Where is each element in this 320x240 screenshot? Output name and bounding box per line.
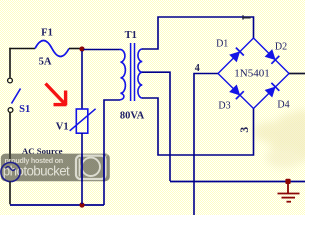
junction dot B <box>79 202 84 207</box>
bridge edge L-B <box>218 74 254 109</box>
fuse F1 <box>35 41 69 57</box>
wire primary return over watermark <box>103 154 105 182</box>
transformer T1 primary winding <box>120 49 126 99</box>
wire fuse to junction <box>69 48 81 50</box>
wire switch to AC source <box>9 113 11 164</box>
junction dot ground <box>285 179 290 184</box>
wire bottom-left rail <box>10 204 104 206</box>
svg-text:D4: D4 <box>277 99 289 110</box>
wire bottom rail right <box>170 181 305 183</box>
bridge edge B-R <box>254 74 290 109</box>
wire secondary top to bridge node 1 <box>142 17 254 49</box>
wire AC source to bottom rail <box>9 182 11 205</box>
red annotation arrow <box>46 84 67 106</box>
bridge edge T-R <box>254 38 290 74</box>
photobucket watermark band <box>1 153 110 181</box>
svg-text:D1: D1 <box>216 39 228 50</box>
AC source <box>1 162 20 181</box>
wire secondary bottom to bridge node 3 <box>142 98 254 155</box>
svg-text:F1: F1 <box>41 28 53 39</box>
switch S1 <box>8 78 21 112</box>
svg-text:D2: D2 <box>275 42 287 53</box>
wire top-left horizontal <box>9 48 35 50</box>
svg-text:4: 4 <box>195 63 200 74</box>
bridge edge L-T <box>218 38 254 74</box>
svg-text:80VA: 80VA <box>120 111 145 122</box>
varistor branch wire upper <box>81 51 83 109</box>
wire node 4 <box>194 74 218 216</box>
svg-text:3: 3 <box>239 127 251 133</box>
wire varistor branch over watermark <box>81 154 83 182</box>
svg-text:5A: 5A <box>39 57 52 68</box>
varistor branch wire lower <box>81 133 83 204</box>
svg-text:T1: T1 <box>125 30 137 41</box>
wire primary bottom return <box>104 100 120 205</box>
wire secondary tap to bottom rail <box>142 72 170 181</box>
wire bridge right output <box>289 73 305 75</box>
diode D2 <box>265 49 279 63</box>
wire left rail upper <box>9 48 11 78</box>
varistor V1 <box>70 109 96 133</box>
transformer T1 core <box>131 43 135 101</box>
svg-text:S1: S1 <box>19 104 30 115</box>
ground symbol <box>278 184 300 202</box>
svg-text:1N5401: 1N5401 <box>234 68 269 80</box>
transformer T1 secondary winding <box>138 49 142 98</box>
diode D1 <box>229 48 243 62</box>
diode D3 <box>229 85 243 99</box>
svg-text:V1: V1 <box>56 122 69 133</box>
label node 1 (rotated) <box>242 15 250 19</box>
faint watermark ghost smudge <box>254 110 320 168</box>
diode D4 <box>265 83 279 97</box>
wire junction to transformer primary top <box>84 49 120 51</box>
svg-text:D3: D3 <box>218 100 230 111</box>
junction dot A <box>79 46 84 51</box>
